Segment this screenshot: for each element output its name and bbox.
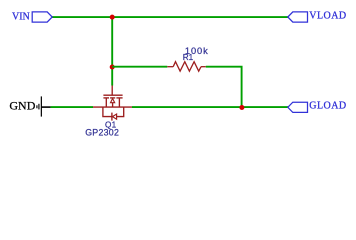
node junction dot mid (resistor tap) [110, 65, 115, 70]
body diode loop right [117, 107, 124, 117]
port VIN [32, 12, 52, 22]
gate bar [103, 94, 122, 96]
port VLOAD [288, 12, 308, 22]
body diode cathode bar [111, 113, 113, 121]
transistor Q1 (MOSFET with body diode, gate on top) [93, 86, 132, 121]
port GLOAD [288, 102, 308, 112]
wire vertical from top rail to gate [111, 17, 113, 85]
source/drain pin rail [93, 106, 132, 108]
ground [36, 96, 50, 116]
svg-text:GP2302: GP2302 [85, 128, 119, 138]
node junction dot top [110, 15, 115, 20]
body arrow [111, 99, 115, 103]
svg-text:GLOAD: GLOAD [309, 101, 346, 112]
wire GND to transistor [51, 106, 93, 108]
wire resistor branch left [112, 66, 167, 68]
svg-text:VLOAD: VLOAD [309, 11, 346, 22]
node junction dot bottom [239, 105, 244, 110]
wire VIN to VLOAD (top rail) [52, 16, 288, 18]
svg-text:GND: GND [9, 99, 35, 113]
wire transistor to GLOAD [132, 106, 288, 108]
drain lead [118, 98, 120, 107]
resistor R1 [167, 62, 206, 71]
wire resistor branch right with corner down [206, 67, 242, 108]
channel segment right [116, 97, 122, 99]
svg-text:VIN: VIN [12, 12, 30, 23]
gate lead [111, 86, 113, 96]
body diode loop left [103, 107, 112, 117]
channel segment left [103, 97, 109, 99]
channel segment middle [110, 97, 115, 99]
source lead [105, 98, 107, 107]
body diode triangle [113, 114, 117, 119]
svg-text:R1: R1 [183, 53, 194, 62]
